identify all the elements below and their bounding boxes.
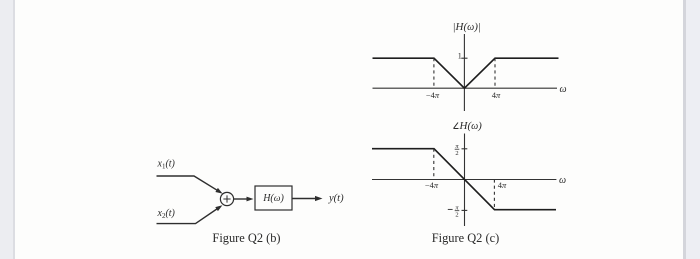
wire block to output <box>292 198 316 200</box>
tick at pi/2 <box>462 148 468 150</box>
tick at level 1 <box>461 57 467 59</box>
right page edge shadow <box>683 0 700 259</box>
svg-text:x1(t): x1(t) <box>157 159 176 171</box>
wire input x2 <box>157 207 221 224</box>
svg-text:−4π: −4π <box>425 180 439 190</box>
block H(w) <box>255 186 292 210</box>
phase curve <box>372 149 556 210</box>
left gray margin strip <box>0 0 15 259</box>
angle symbol <box>454 123 459 129</box>
svg-text:y(t): y(t) <box>328 193 344 204</box>
summer circle <box>220 192 233 205</box>
dashed line at -4pi (phase) <box>433 149 435 180</box>
magnitude curve <box>373 58 559 88</box>
svg-text:−4π: −4π <box>426 90 440 100</box>
tick at -pi/2 <box>462 209 468 211</box>
svg-text:H(ω): H(ω) <box>459 120 483 132</box>
label -pi/2 <box>448 204 460 218</box>
wire input x1 <box>157 176 221 192</box>
svg-text:2: 2 <box>455 211 458 218</box>
wire summer to block <box>234 198 247 200</box>
svg-text:Figure Q2 (c): Figure Q2 (c) <box>432 231 499 245</box>
arrowhead into summer from x1 <box>215 188 223 196</box>
svg-text:x2(t): x2(t) <box>157 208 176 220</box>
arrowhead into summer from x2 <box>215 203 223 211</box>
plus sign <box>223 195 230 202</box>
phase horizontal axis <box>372 179 556 181</box>
arrowhead into block <box>247 197 254 202</box>
svg-text:1: 1 <box>458 52 462 61</box>
magnitude vertical axis <box>463 34 465 111</box>
svg-text:H(ω): H(ω) <box>262 193 284 204</box>
label pi/2 <box>455 143 460 157</box>
svg-text:ω: ω <box>560 84 567 95</box>
svg-text:ω: ω <box>559 175 566 186</box>
svg-text:Figure Q2 (b): Figure Q2 (b) <box>212 231 280 245</box>
svg-text:4π: 4π <box>492 90 501 100</box>
dashed line at -4pi (magnitude) <box>433 58 435 88</box>
arrowhead output <box>315 196 323 201</box>
svg-text:2: 2 <box>455 150 458 157</box>
phase vertical axis <box>464 134 466 227</box>
magnitude horizontal axis <box>373 87 558 89</box>
svg-text:4π: 4π <box>498 180 507 190</box>
dashed line at 4pi (phase) <box>493 180 495 210</box>
svg-text:|H(ω)|: |H(ω)| <box>453 21 481 33</box>
dashed line at 4pi (magnitude) <box>494 58 496 88</box>
